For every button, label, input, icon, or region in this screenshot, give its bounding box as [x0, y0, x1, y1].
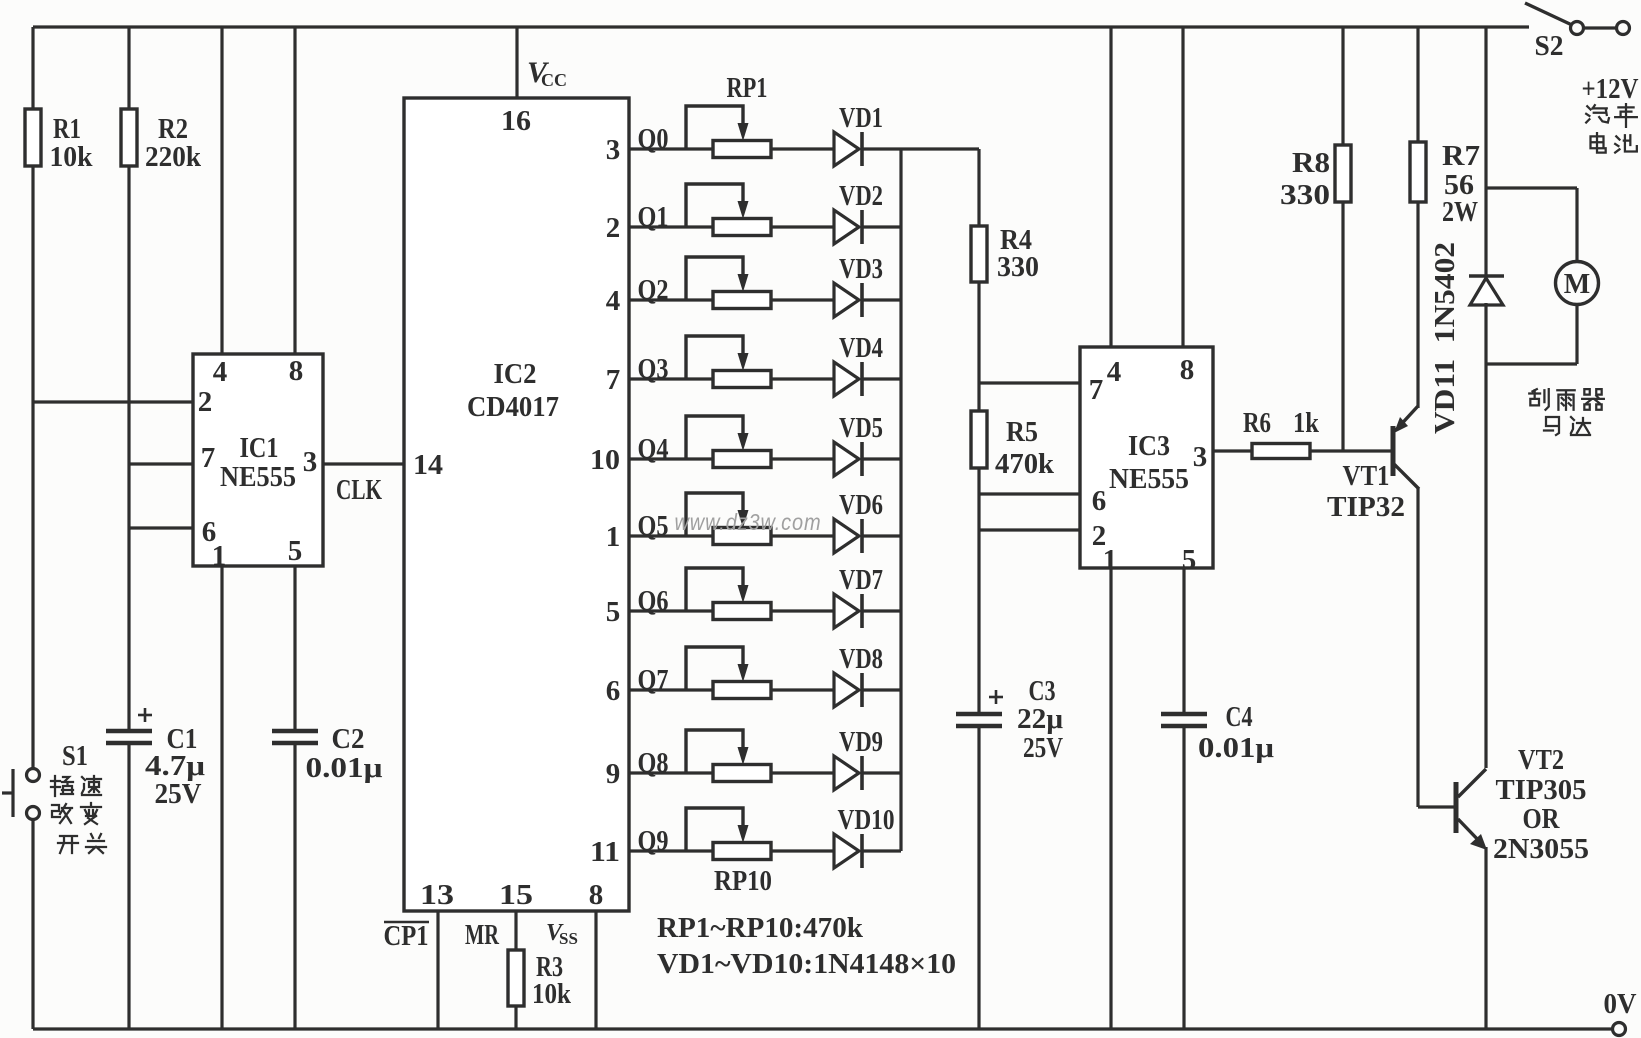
wire VT1 collector down	[1416, 488, 1419, 807]
wire IC2 Q8 output row	[629, 771, 836, 774]
potentiometer RP3	[713, 292, 771, 309]
wire VD6 cathode to bus	[862, 534, 901, 537]
wire IC3 pin3 to R6	[1213, 449, 1252, 452]
label S1 Chinese 改变	[52, 804, 72, 823]
svg-text:VD6: VD6	[839, 490, 883, 521]
label CP1 with overline	[384, 921, 429, 924]
wire VT2 emitter to 0V	[1484, 847, 1487, 1029]
op-amp IC3 NE555 box	[1080, 347, 1213, 568]
svg-text:4: 4	[213, 356, 228, 388]
svg-text:Q2: Q2	[638, 274, 669, 306]
wire IC2 Q3 output row	[629, 377, 836, 380]
svg-text:Q5: Q5	[638, 510, 669, 542]
switch S2	[1525, 3, 1572, 25]
svg-text:10k: 10k	[532, 978, 572, 1010]
label motor Chinese 刮雨器	[1529, 389, 1548, 410]
wire node A to R5	[977, 383, 980, 411]
svg-text:R8: R8	[1292, 147, 1330, 179]
wire IC2 Q2 output row	[629, 298, 836, 301]
svg-text:www.dz3w.com: www.dz3w.com	[675, 509, 822, 535]
wire IC2 Q7 output row	[629, 688, 836, 691]
label S1 Chinese 开关	[58, 836, 78, 853]
wire IC2 Q1 output row	[629, 225, 836, 228]
wire IC1 pin5 to C2	[293, 566, 296, 732]
svg-text:RP1: RP1	[727, 72, 768, 104]
potentiometer RP6	[713, 528, 771, 545]
wire IC2 Q6 output row	[629, 609, 836, 612]
svg-text:VD7: VD7	[839, 565, 883, 596]
transistor VT1 TIP32	[1391, 426, 1396, 476]
resistor R6	[1252, 444, 1310, 459]
svg-text:5: 5	[606, 596, 621, 628]
wire R7 to VT1 emitter	[1416, 202, 1419, 408]
svg-text:4: 4	[1107, 356, 1122, 388]
svg-text:6: 6	[1092, 485, 1107, 517]
svg-text:RP1~RP10:470k: RP1~RP10:470k	[657, 912, 864, 944]
svg-text:330: 330	[997, 251, 1039, 283]
svg-text:CP1: CP1	[384, 921, 429, 952]
svg-text:TIP32: TIP32	[1327, 491, 1405, 523]
svg-text:10k: 10k	[50, 141, 94, 173]
wire IC1 pin7 row	[129, 462, 193, 465]
potentiometer RP10	[713, 843, 771, 860]
svg-text:0.01μ: 0.01μ	[1198, 732, 1275, 764]
svg-text:8: 8	[289, 355, 304, 387]
svg-text:15: 15	[499, 879, 533, 911]
svg-text:9: 9	[606, 758, 621, 790]
wire motor bottom lead	[1575, 304, 1578, 364]
svg-text:VD2: VD2	[839, 181, 883, 212]
diode VD2	[834, 210, 859, 244]
wire Vcc lead to IC2 pin16	[515, 27, 518, 98]
transistor VT2 TIP305/2N3055	[1454, 782, 1459, 833]
wire IC2 Q0 output row	[629, 147, 836, 150]
wire IC2 pin8 to 0V	[594, 911, 597, 1029]
svg-text:VT2: VT2	[1518, 744, 1564, 776]
svg-text:25V: 25V	[1023, 732, 1063, 764]
svg-text:VD8: VD8	[839, 644, 883, 675]
diode VD5	[834, 442, 859, 476]
IC2 CD4017 box	[404, 98, 629, 911]
wire diode output bus	[899, 149, 902, 851]
motor M (wiper motor)	[1556, 262, 1599, 305]
svg-text:0.01μ: 0.01μ	[306, 752, 384, 784]
svg-text:2N3055: 2N3055	[1493, 833, 1589, 865]
wire VD10 cathode to bus	[862, 849, 901, 852]
op-amp IC1 NE555 box	[193, 354, 323, 566]
potentiometer RP1	[713, 141, 771, 158]
wire IC2 Q5 output row	[629, 534, 836, 537]
wire IC3 pin4 lead	[1109, 27, 1112, 347]
label battery Chinese 汽车	[1586, 105, 1609, 122]
svg-text:VD11 1N5402: VD11 1N5402	[1430, 242, 1461, 434]
wire 0V bottom rail	[33, 1027, 1612, 1030]
diode VD10	[834, 834, 859, 868]
svg-text:VD3: VD3	[839, 254, 883, 285]
wire motor top lead	[1575, 188, 1578, 262]
svg-text:Q7: Q7	[638, 664, 669, 696]
capacitor C1 polarized	[106, 729, 152, 734]
svg-text:Q8: Q8	[638, 747, 669, 779]
svg-text:VD1~VD10:1N4148×10: VD1~VD10:1N4148×10	[657, 948, 956, 980]
svg-text:CLK: CLK	[336, 474, 382, 506]
wire R5 bottom down to C3	[977, 468, 980, 715]
diode VD9	[834, 756, 859, 790]
label S1 Chinese 摇速	[51, 776, 73, 796]
svg-text:SS: SS	[559, 929, 578, 948]
label motor Chinese 马达	[1544, 417, 1559, 435]
svg-text:2W: 2W	[1442, 196, 1478, 228]
svg-text:8: 8	[1180, 354, 1195, 386]
wire Q0 row to R4	[901, 147, 979, 150]
svg-text:10: 10	[590, 444, 620, 476]
svg-text:+12V: +12V	[1582, 73, 1639, 105]
diode VD1	[834, 132, 859, 166]
svg-text:OR: OR	[1523, 803, 1561, 835]
svg-text:VT1: VT1	[1343, 460, 1390, 492]
label VD11 1N5402	[1430, 242, 1461, 434]
svg-text:VD9: VD9	[839, 727, 883, 758]
svg-text:TIP305: TIP305	[1496, 774, 1587, 806]
svg-text:NE555: NE555	[220, 461, 296, 493]
wire +12V down right bus	[1484, 27, 1487, 277]
svg-text:S1: S1	[62, 740, 88, 772]
resistor R3	[508, 950, 524, 1006]
svg-text:7: 7	[1089, 374, 1104, 406]
wire R4 to node A	[977, 282, 980, 383]
wire VD3 cathode to bus	[862, 298, 901, 301]
wire R3 to 0V	[514, 1006, 517, 1029]
wire IC3 pin5 to C4	[1182, 568, 1185, 715]
wire VD2 cathode to bus	[862, 225, 901, 228]
svg-text:7: 7	[606, 364, 621, 396]
node 0V terminal	[1613, 1023, 1626, 1036]
resistor R5	[971, 411, 987, 468]
wire IC2 Q9 output row	[629, 849, 836, 852]
wire R1 top lead	[31, 27, 34, 109]
svg-text:VD10: VD10	[838, 805, 895, 836]
svg-text:4: 4	[606, 285, 621, 317]
wire C3 to 0V	[977, 726, 980, 1029]
svg-text:MR: MR	[465, 920, 500, 951]
svg-text:R6: R6	[1243, 407, 1271, 439]
potentiometer RP9	[713, 765, 771, 782]
wire R2 bottom down to C1	[127, 166, 130, 732]
svg-text:1: 1	[606, 521, 621, 553]
svg-text:3: 3	[606, 134, 621, 166]
wire VD8 cathode to bus	[862, 688, 901, 691]
potentiometer RP8	[713, 682, 771, 699]
svg-text:22μ: 22μ	[1017, 703, 1064, 735]
svg-text:Q4: Q4	[638, 433, 669, 465]
svg-text:0V: 0V	[1604, 988, 1637, 1020]
svg-text:3: 3	[1193, 441, 1208, 473]
wire VD7 cathode to bus	[862, 609, 901, 612]
capacitor C4	[1161, 712, 1207, 717]
potentiometer RP2	[713, 219, 771, 236]
wire C4 to 0V	[1182, 726, 1185, 1029]
wire IC1 pin2 row	[33, 400, 193, 403]
wire VD9 cathode to bus	[862, 771, 901, 774]
wire R2 top lead	[127, 27, 130, 109]
wire R6 to VT1 base	[1310, 449, 1393, 452]
wire VD4 cathode to bus	[862, 377, 901, 380]
potentiometer RP4	[713, 371, 771, 388]
svg-text:220k: 220k	[145, 141, 202, 173]
svg-text:330: 330	[1280, 179, 1330, 211]
wire IC3 pin6 row	[979, 492, 1080, 495]
wire IC1 pin4 lead	[220, 27, 223, 354]
svg-text:7: 7	[201, 442, 216, 474]
svg-text:S2: S2	[1535, 30, 1564, 62]
wire node2 down to S1	[31, 402, 34, 769]
wire IC3 pin7 row	[979, 381, 1080, 384]
svg-text:25V: 25V	[155, 778, 202, 810]
capacitor C3 polarized	[956, 712, 1002, 717]
wire R8 top lead	[1341, 27, 1344, 145]
svg-text:2: 2	[198, 386, 213, 418]
svg-text:1k: 1k	[1293, 407, 1320, 439]
wire IC3 pin8 lead	[1181, 27, 1184, 347]
wire IC2 pin13 to 0V	[436, 911, 439, 1029]
wire C2 to 0V	[293, 743, 296, 1029]
wire IC1 pin6 row	[129, 526, 193, 529]
wire VD5 cathode to bus	[862, 457, 901, 460]
wire VD11 to motor bottom node	[1484, 303, 1487, 768]
wire motor branch bottom	[1486, 362, 1577, 365]
svg-text:VD4: VD4	[839, 333, 883, 364]
svg-text:M: M	[1564, 269, 1590, 300]
svg-text:R5: R5	[1006, 416, 1038, 448]
wire CLK IC1 pin3 to IC2 pin14	[323, 462, 404, 465]
svg-text:Q3: Q3	[638, 353, 669, 385]
svg-text:RP10: RP10	[714, 865, 772, 897]
svg-text:NE555: NE555	[1109, 463, 1189, 495]
diode VD7	[834, 594, 859, 628]
svg-text:13: 13	[420, 879, 454, 911]
svg-text:Q0: Q0	[638, 123, 669, 155]
wire motor branch top	[1486, 186, 1577, 189]
potentiometer RP5	[713, 451, 771, 468]
wire S1 to 0V	[31, 819, 34, 1029]
svg-text:VD5: VD5	[839, 413, 883, 444]
label battery Chinese 电池	[1590, 133, 1605, 152]
wire IC1 pin8 lead	[293, 27, 296, 354]
resistor R2	[121, 109, 137, 166]
svg-text:2: 2	[606, 212, 621, 244]
svg-text:Q1: Q1	[638, 201, 669, 233]
capacitor C2	[272, 729, 318, 734]
svg-text:CD4017: CD4017	[467, 391, 559, 423]
wire IC2 pin15 lead	[514, 911, 517, 950]
resistor R8	[1335, 145, 1351, 202]
wire C1 to 0V	[127, 743, 130, 1029]
wire R8 to base node	[1341, 202, 1344, 451]
svg-text:3: 3	[303, 446, 318, 478]
svg-text:8: 8	[589, 879, 604, 911]
svg-text:5: 5	[288, 535, 303, 567]
svg-text:R7: R7	[1442, 140, 1480, 172]
diode VD8	[834, 673, 859, 707]
wire VD1 cathode to bus	[862, 147, 901, 150]
wire R1 bottom to node 2	[31, 166, 34, 402]
svg-text:CC: CC	[541, 70, 567, 90]
resistor R4	[971, 226, 987, 282]
wire IC3 pin2 row	[979, 528, 1080, 531]
svg-text:IC2: IC2	[494, 358, 537, 390]
svg-text:11: 11	[590, 836, 620, 868]
svg-text:470k: 470k	[995, 448, 1055, 480]
svg-text:14: 14	[413, 449, 443, 481]
svg-text:VD1: VD1	[839, 103, 883, 134]
wire VT1 collector to VT2 base	[1418, 805, 1456, 808]
svg-text:IC1: IC1	[240, 432, 279, 464]
svg-text:Q6: Q6	[638, 585, 669, 617]
svg-text:IC3: IC3	[1128, 430, 1170, 462]
diode VD4	[834, 362, 859, 396]
wire R4 top lead	[977, 149, 980, 226]
wire IC2 Q4 output row	[629, 457, 836, 460]
wire IC3 pin1 to 0V	[1109, 568, 1112, 1029]
switch S1 (pushbutton)	[27, 769, 40, 782]
wire R7 top lead	[1416, 27, 1419, 142]
diode VD6	[834, 519, 859, 553]
svg-text:Q9: Q9	[638, 825, 669, 857]
svg-text:16: 16	[501, 105, 531, 137]
wire IC1 pin1 to 0V	[220, 566, 223, 1029]
diode VD11 1N5402	[1469, 274, 1504, 278]
diode VD3	[834, 283, 859, 317]
potentiometer RP7	[713, 603, 771, 620]
resistor R1	[25, 109, 41, 166]
svg-text:C4: C4	[1226, 701, 1253, 733]
wire +12V top rail	[33, 25, 1529, 28]
resistor R7	[1410, 142, 1426, 202]
svg-text:6: 6	[606, 675, 621, 707]
svg-text:C2: C2	[332, 723, 365, 755]
svg-text:1: 1	[212, 540, 227, 572]
